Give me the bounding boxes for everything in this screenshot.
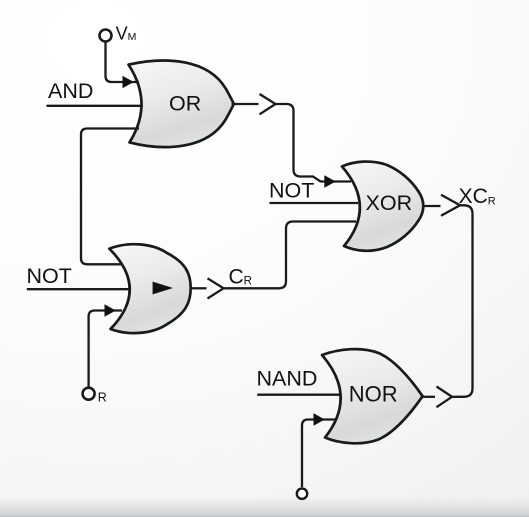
wire XOR output: [423, 205, 441, 207]
wire AND input: [47, 105, 144, 107]
svg-text:VM: VM: [116, 23, 137, 43]
wire NOR output: [421, 396, 435, 398]
arrowhead into U2: [105, 304, 116, 316]
buffer gate U2: [109, 244, 190, 333]
wire OR output: [232, 103, 259, 105]
nor-gate U4: [322, 349, 423, 443]
svg-text:R: R: [98, 390, 107, 404]
chevron NOR output: [437, 387, 453, 408]
chevron XOR output: [441, 195, 460, 216]
wire OR to XOR: [276, 104, 352, 182]
wire VM to OR: [106, 41, 140, 82]
wire NAND input to NOR: [257, 394, 341, 396]
wire NOT input to U2: [27, 288, 131, 290]
wire U2 output: [191, 287, 207, 289]
svg-text:NOT: NOT: [27, 264, 72, 288]
wire NOT input to XOR: [270, 202, 359, 204]
svg-text:CR: CR: [229, 265, 252, 288]
arrowhead into NOR: [314, 413, 325, 425]
wire CR to XOR: [224, 222, 357, 289]
arrowhead into XOR: [324, 175, 336, 188]
terminal OR (bottom-left circle): [83, 388, 95, 400]
wire OR-terminal to U2: [89, 311, 122, 388]
arrowhead into OR: [123, 76, 134, 88]
svg-text:NOT: NOT: [269, 179, 314, 203]
xor-gate U3: [342, 162, 423, 251]
wire AND branch to U2: [81, 129, 139, 265]
svg-text:XOR: XOR: [366, 191, 413, 215]
svg-text:AND: AND: [48, 79, 93, 103]
svg-text:NOR: NOR: [349, 382, 398, 407]
chevron OR output: [260, 94, 276, 114]
wire bottom terminal to NOR: [302, 420, 335, 488]
or-gate U1: [129, 61, 234, 148]
terminal VM: [100, 30, 112, 42]
chevron U2 output: [208, 278, 224, 298]
terminal bottom (unlabeled): [297, 489, 307, 499]
svg-text:NAND: NAND: [257, 367, 318, 391]
svg-text:OR: OR: [169, 92, 201, 116]
U2 triangle symbol: [153, 282, 173, 295]
wire XCR down to NOR output: [453, 205, 473, 396]
